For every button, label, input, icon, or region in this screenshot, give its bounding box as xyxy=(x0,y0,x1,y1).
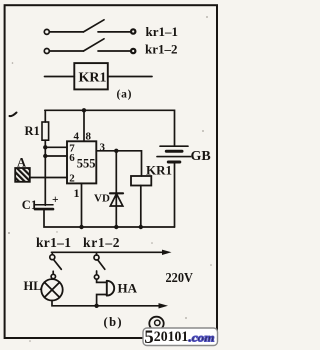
svg-text:.com: .com xyxy=(189,331,215,345)
wire lamp to bottom rail xyxy=(52,301,161,306)
switch contact kr1-1 (section a) xyxy=(44,20,135,35)
wire relay to bottom rail xyxy=(140,186,142,228)
wire left of relay coil KR1 xyxy=(45,76,75,78)
contact kr1-1 (section b) xyxy=(50,252,62,278)
resistor R1 xyxy=(42,122,49,140)
svg-text:(a): (a) xyxy=(117,89,133,101)
svg-text:3: 3 xyxy=(100,141,106,153)
arrow bottom rail xyxy=(159,303,169,308)
svg-text:6: 6 xyxy=(69,152,75,164)
svg-text:kr1–2: kr1–2 xyxy=(145,42,178,57)
relay coil KR1 xyxy=(131,176,151,186)
svg-text:2: 2 xyxy=(69,172,75,184)
wire C1 to bottom rail xyxy=(44,209,175,227)
node dot pin6 xyxy=(43,154,47,158)
wire rail to resistor R1 xyxy=(44,110,46,122)
wire to pin 7 xyxy=(45,146,67,148)
touch plate A xyxy=(15,168,30,182)
bell HA xyxy=(97,279,115,306)
IC 555 box xyxy=(67,141,96,183)
scan specks xyxy=(8,16,212,342)
node dot pin3 wire xyxy=(114,149,118,153)
svg-text:1: 1 xyxy=(74,186,80,200)
svg-text:HA: HA xyxy=(118,281,138,296)
svg-text:(b): (b) xyxy=(104,315,123,329)
wire A to pin 2 xyxy=(30,177,67,179)
svg-text:kr1–1: kr1–1 xyxy=(36,235,71,250)
diode VD xyxy=(110,192,123,194)
node dot relay/rail xyxy=(139,225,143,229)
svg-text:5: 5 xyxy=(144,327,154,348)
lamp HL xyxy=(41,279,62,300)
wire 555 pin 1 to bottom rail xyxy=(81,183,83,227)
svg-text:VD: VD xyxy=(94,193,110,205)
svg-text:kr1–2: kr1–2 xyxy=(83,235,120,250)
wire diode branch xyxy=(115,151,117,227)
wire right of relay coil KR1 xyxy=(108,76,152,78)
switch contact kr1-2 (section a) xyxy=(44,39,135,54)
border frame xyxy=(5,5,217,338)
stray pen mark xyxy=(10,113,17,117)
svg-text:HL: HL xyxy=(24,279,42,293)
junction dot top rail xyxy=(82,108,86,112)
svg-text:KR1: KR1 xyxy=(79,71,107,86)
node dot diode/rail xyxy=(114,225,118,229)
motor symbol xyxy=(149,317,163,331)
svg-text:220V: 220V xyxy=(166,271,194,286)
node dot pin1/rail xyxy=(79,225,83,229)
watermark 520101.com xyxy=(143,327,218,348)
svg-text:KR1: KR1 xyxy=(146,163,172,178)
relay coil KR1 (section a) xyxy=(74,63,108,89)
contact kr1-2 (section b) xyxy=(94,252,105,279)
svg-text:20101: 20101 xyxy=(154,329,189,345)
wire pins 4,8 to rail xyxy=(83,110,85,141)
top 220V rail with arrow xyxy=(52,251,167,253)
svg-text:555: 555 xyxy=(77,157,96,171)
wire to pin 6 xyxy=(45,155,67,157)
svg-text:R1: R1 xyxy=(25,124,40,138)
svg-text:kr1–1: kr1–1 xyxy=(146,24,179,39)
top supply rail xyxy=(45,110,175,145)
node dot pin7 xyxy=(43,145,47,149)
wire R1 to junction bus xyxy=(44,140,46,205)
wire 555 pin 3 xyxy=(96,151,141,176)
svg-text:GB: GB xyxy=(191,149,211,164)
node dot bell/rail xyxy=(94,304,98,308)
capacitor C1 xyxy=(35,204,53,206)
battery GB xyxy=(157,146,191,227)
